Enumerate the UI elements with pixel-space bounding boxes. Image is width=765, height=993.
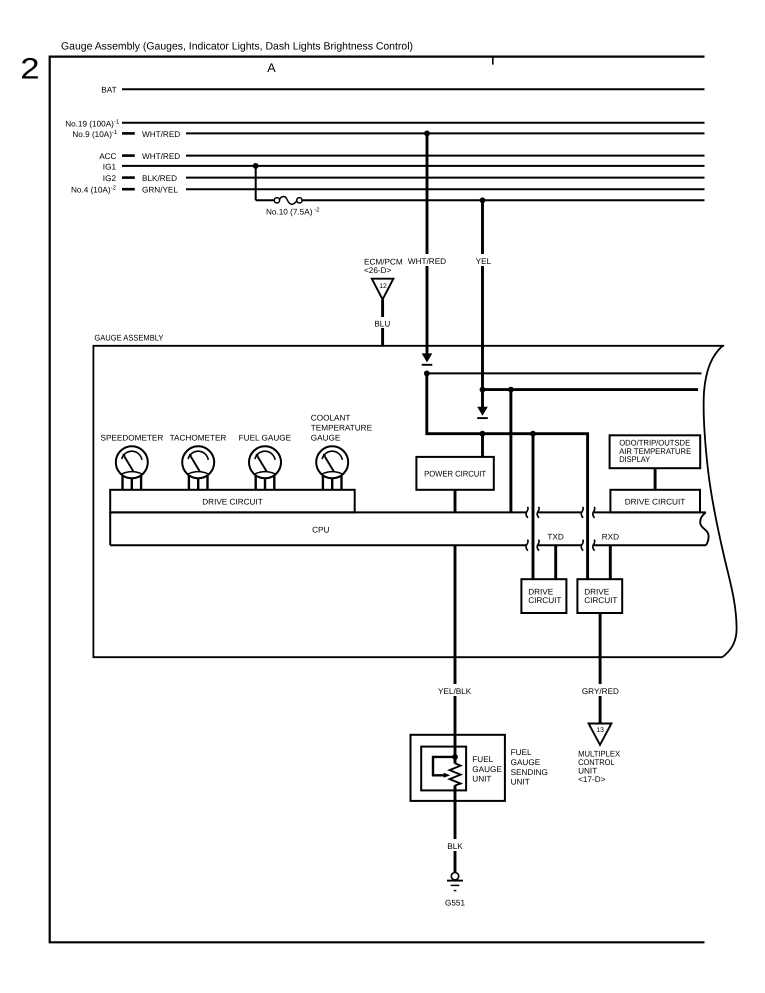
svg-text:FUEL: FUEL bbox=[511, 748, 532, 757]
svg-text:2: 2 bbox=[20, 53, 39, 86]
wire WHT/RED vertical bbox=[426, 133, 429, 354]
node junction rail B to CPU bbox=[508, 387, 514, 393]
wire RXD stub bbox=[609, 545, 612, 579]
svg-text:CIRCUIT: CIRCUIT bbox=[528, 596, 561, 605]
value label BLK bbox=[444, 839, 466, 851]
svg-text:G551: G551 bbox=[445, 898, 465, 907]
break mark on CPU band bbox=[537, 540, 539, 551]
gauge fuel gauge bbox=[249, 446, 281, 491]
svg-text:No.9 (10A)-1: No.9 (10A)-1 bbox=[72, 129, 118, 139]
connector triangle 12 bbox=[372, 279, 394, 300]
wire stub to power circuit bbox=[481, 434, 484, 457]
wire YEL/BLK vertical bbox=[454, 545, 457, 735]
svg-text:FUEL: FUEL bbox=[472, 755, 493, 764]
break mark on CPU band bbox=[593, 540, 595, 551]
svg-text:GAUGE: GAUGE bbox=[311, 433, 341, 442]
svg-text:DRIVE CIRCUIT: DRIVE CIRCUIT bbox=[625, 498, 686, 507]
svg-text:IG2: IG2 bbox=[103, 174, 117, 183]
svg-text:FUEL GAUGE: FUEL GAUGE bbox=[239, 433, 292, 442]
break mark on CPU band bbox=[581, 507, 583, 518]
ground G551 bbox=[451, 873, 458, 880]
svg-text:CIRCUIT: CIRCUIT bbox=[584, 596, 617, 605]
section tick bbox=[492, 57, 494, 65]
node junction sender bbox=[452, 754, 458, 760]
svg-text:GAUGE: GAUGE bbox=[511, 758, 541, 767]
svg-text:TEMPERATURE: TEMPERATURE bbox=[311, 423, 373, 432]
block DRIVE CIRCUIT (gauges) bbox=[110, 490, 355, 513]
svg-text:No.4 (10A)-2: No.4 (10A)-2 bbox=[71, 185, 117, 195]
wire BLU vertical bbox=[381, 300, 384, 346]
svg-text:<17-D>: <17-D> bbox=[578, 775, 606, 784]
block DRIVE CIRCUIT (TXD) bbox=[521, 579, 566, 613]
node junction IG1 tap bbox=[253, 163, 259, 169]
break mark on CPU band bbox=[593, 507, 595, 518]
svg-text:BLU: BLU bbox=[374, 320, 390, 329]
wire IG1 tap vertical bbox=[255, 166, 257, 200]
block DRIVE CIRCUIT (display) bbox=[610, 490, 700, 513]
block CPU band bbox=[110, 511, 526, 513]
outer frame bbox=[50, 57, 705, 943]
arrow into junction (YEL) bbox=[477, 407, 488, 416]
wire GRY/RED vertical bbox=[599, 613, 602, 724]
svg-text:TACHOMETER: TACHOMETER bbox=[170, 433, 227, 442]
svg-text:No.10 (7.5A) -2: No.10 (7.5A) -2 bbox=[266, 206, 320, 216]
node junction on No.9 line bbox=[424, 131, 430, 137]
svg-text:BLK: BLK bbox=[447, 842, 463, 851]
break mark on CPU band bbox=[526, 540, 528, 551]
wire YEL vertical bbox=[481, 200, 484, 407]
wire fuse line right bbox=[302, 199, 704, 201]
value label WHT/RED bbox=[407, 254, 447, 266]
svg-text:YEL: YEL bbox=[476, 257, 492, 266]
arrow into junction (WHT/RED) bbox=[422, 353, 433, 362]
fuse No.10 (7.5A) bbox=[274, 198, 279, 203]
svg-text:POWER CIRCUIT: POWER CIRCUIT bbox=[424, 470, 486, 479]
wiper arm with arrow bbox=[433, 757, 455, 775]
svg-text:Gauge Assembly (Gauges, Indica: Gauge Assembly (Gauges, Indicator Lights… bbox=[61, 41, 413, 53]
svg-text:GRY/RED: GRY/RED bbox=[582, 687, 619, 696]
svg-text:RXD: RXD bbox=[602, 532, 619, 541]
svg-text:13: 13 bbox=[596, 727, 604, 734]
svg-text:DISPLAY: DISPLAY bbox=[619, 455, 650, 464]
wire TXD stub bbox=[554, 545, 557, 579]
wire rail B (y=389.6) bbox=[483, 388, 699, 391]
wire rail A (y=373) bbox=[427, 372, 702, 374]
svg-text:YEL/BLK: YEL/BLK bbox=[438, 687, 472, 696]
svg-text:<26-D>: <26-D> bbox=[364, 266, 392, 275]
svg-text:SPEEDOMETER: SPEEDOMETER bbox=[101, 433, 164, 442]
break mark on CPU band bbox=[581, 540, 583, 551]
value label GRY/RED bbox=[581, 684, 621, 696]
svg-text:A: A bbox=[267, 61, 276, 75]
svg-text:UNIT: UNIT bbox=[511, 778, 530, 787]
gauge assembly box (torn right edge) bbox=[93, 346, 724, 657]
gauge tachometer bbox=[182, 446, 214, 491]
svg-text:BLK/RED: BLK/RED bbox=[142, 174, 177, 183]
svg-text:DRIVE CIRCUIT: DRIVE CIRCUIT bbox=[202, 498, 263, 507]
block ODO/TRIP/OUTSDE AIR TEMPERATURE DISPLAY bbox=[610, 435, 701, 468]
gauge coolant temperature gauge bbox=[316, 446, 348, 491]
gauge speedometer bbox=[116, 446, 148, 491]
block POWER CIRCUIT bbox=[416, 457, 493, 490]
svg-text:UNIT: UNIT bbox=[472, 775, 491, 784]
svg-text:BAT: BAT bbox=[101, 86, 116, 95]
svg-text:TXD: TXD bbox=[547, 532, 563, 541]
block fuel gauge unit inner box bbox=[421, 747, 466, 791]
wire ODO display to drive circuit bbox=[654, 468, 657, 490]
svg-text:ACC: ACC bbox=[99, 152, 116, 161]
svg-text:CPU: CPU bbox=[312, 526, 329, 535]
wire fuse line left bbox=[256, 199, 275, 201]
wire vertical rail B to CPU bbox=[509, 390, 512, 512]
wire vertical to left drive circuit bbox=[532, 434, 535, 580]
svg-text:12: 12 bbox=[379, 283, 387, 290]
svg-text:WHT/RED: WHT/RED bbox=[408, 257, 446, 266]
value label YEL bbox=[472, 254, 494, 266]
value label BLU bbox=[372, 317, 393, 328]
resistor fuel sender bbox=[450, 763, 461, 785]
svg-text:WHT/RED: WHT/RED bbox=[142, 152, 180, 161]
wire power circuit to CPU bbox=[454, 490, 457, 512]
block DRIVE CIRCUIT (RXD) bbox=[577, 579, 622, 613]
svg-text:SENDING: SENDING bbox=[511, 768, 548, 777]
CPU band torn end bbox=[700, 512, 708, 545]
node junction on fuse line bbox=[480, 197, 486, 203]
break mark on CPU band bbox=[537, 507, 539, 518]
wire L from rail A down and right (y=433.7) bbox=[427, 373, 588, 579]
svg-text:GRN/YEL: GRN/YEL bbox=[142, 186, 178, 195]
svg-text:GAUGE: GAUGE bbox=[472, 765, 502, 774]
break mark on CPU band bbox=[526, 507, 528, 518]
connector triangle 13 bbox=[589, 724, 612, 745]
svg-text:WHT/RED: WHT/RED bbox=[142, 130, 180, 139]
block fuel gauge sending unit outer box bbox=[411, 735, 505, 801]
node junction drive feed bbox=[530, 431, 536, 437]
svg-text:No.19 (100A)-1: No.19 (100A)-1 bbox=[65, 118, 120, 128]
node junction power feed bbox=[480, 431, 486, 437]
svg-text:IG1: IG1 bbox=[103, 162, 117, 171]
wire resistor to box bottom and BLK bbox=[454, 785, 457, 872]
svg-text:GAUGE ASSEMBLY: GAUGE ASSEMBLY bbox=[94, 333, 163, 342]
value label YEL/BLK bbox=[436, 684, 474, 696]
svg-text:COOLANT: COOLANT bbox=[311, 413, 351, 422]
wire into sending unit bbox=[454, 735, 457, 764]
